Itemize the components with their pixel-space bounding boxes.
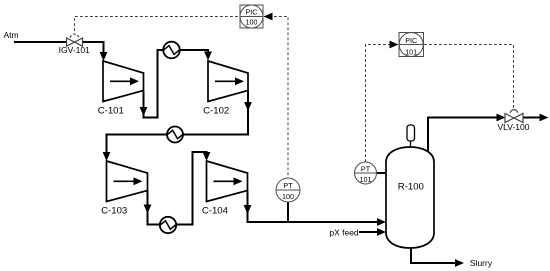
svg-text:pX feed: pX feed [329,228,359,238]
svg-text:C-101: C-101 [98,106,124,117]
svg-text:100: 100 [246,18,258,27]
svg-text:VLV-100: VLV-100 [498,122,530,132]
svg-text:IGV-101: IGV-101 [59,45,90,55]
svg-text:PT: PT [283,181,293,190]
svg-text:R-100: R-100 [398,181,424,192]
svg-text:C-104: C-104 [202,206,229,217]
svg-text:PIC: PIC [246,8,258,17]
svg-text:C-103: C-103 [101,206,127,217]
svg-text:Atm: Atm [4,30,19,40]
svg-text:C-102: C-102 [203,106,229,117]
svg-text:PT: PT [361,165,371,174]
svg-text:PIC: PIC [405,36,417,45]
svg-text:Slurry: Slurry [470,258,493,268]
svg-text:101: 101 [405,47,417,56]
svg-text:101: 101 [360,175,372,184]
svg-text:100: 100 [282,192,294,201]
